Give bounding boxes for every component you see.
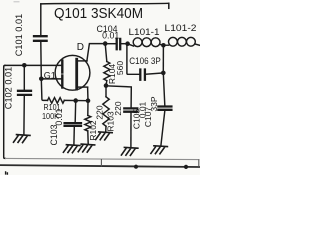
svg-text:220: 220 (113, 101, 123, 115)
node dot on bottom rule right (184, 165, 188, 169)
transistor Q101 channel bar (75, 59, 78, 89)
transistor Q101 body circle (55, 55, 90, 90)
transistor Q101 gate1 bar (61, 61, 63, 73)
wire top supply rail (41, 2, 169, 5)
svg-text:C101 0.01: C101 0.01 (14, 14, 24, 56)
svg-text:560: 560 (115, 61, 125, 75)
inductor L101-2 (163, 44, 168, 46)
capacitor C105 (124, 108, 137, 111)
svg-text:0.01: 0.01 (102, 31, 119, 41)
frame left border (4, 65, 5, 158)
ground R102 (78, 144, 95, 152)
wire R103 bottom lead (105, 126, 107, 132)
text bottom left cut glyph (6, 171, 8, 175)
node C106 C107 junction (161, 71, 166, 76)
wire R101 left lead from node G1 (41, 79, 47, 101)
capacitor C103 (65, 123, 81, 126)
wire C105 bottom lead (130, 113, 132, 147)
page rule divider (100, 159, 102, 167)
page rule right edge (198, 159, 200, 166)
svg-text:C106 3P: C106 3P (129, 56, 161, 66)
capacitor C104 (117, 39, 121, 49)
svg-text:C103: C103 (49, 124, 59, 145)
wire C102 top lead (23, 65, 25, 89)
node dot on bottom rule left (134, 165, 138, 169)
svg-text:0.01: 0.01 (54, 108, 64, 125)
wire C101 top lead (40, 4, 42, 35)
capacitor C102 (18, 91, 31, 95)
wire R104 top lead (105, 44, 107, 62)
wire drain lead up to node D (87, 44, 105, 61)
ground C102 (14, 135, 31, 143)
node C102 tap junction (22, 63, 27, 68)
resistor R102 (85, 115, 91, 131)
wire C106 right lead (146, 73, 163, 74)
wire C104 right lead (121, 43, 127, 45)
wire C106 left branch from C104 node (127, 44, 139, 75)
wire G1 gate lead (41, 78, 61, 80)
ground C103 (63, 145, 80, 153)
resistor R101 (48, 98, 65, 104)
wire C102 bottom lead (23, 96, 25, 134)
wire G2 input wire from left border (5, 64, 61, 66)
wire R102 top lead (87, 101, 89, 116)
ground C107 (151, 146, 168, 154)
wire C103 bottom lead (73, 127, 75, 145)
ground C105 (121, 147, 137, 155)
wire L101 node down lead (162, 45, 164, 73)
svg-text:Q101 3SK40M: Q101 3SK40M (54, 5, 143, 22)
wire source row (64, 99, 88, 101)
node drain junction (103, 41, 108, 46)
resistor R103 (103, 97, 109, 126)
transistor Q101 gate2 bar (61, 76, 63, 88)
svg-text:G1: G1 (44, 70, 56, 80)
node R104 R103 C105 junction (104, 83, 109, 88)
svg-text:220: 220 (94, 105, 104, 119)
wire source lead (87, 87, 89, 101)
svg-text:33P: 33P (149, 96, 159, 111)
wire R104 bottom lead (105, 81, 108, 86)
svg-text:L101-2: L101-2 (165, 23, 197, 33)
svg-text:R102: R102 (88, 120, 98, 141)
transistor Q101 drain tap (78, 60, 87, 62)
capacitor C106 (140, 70, 145, 80)
page rule line bottom (0, 165, 200, 167)
wire C107 top lead (163, 73, 165, 105)
inductor L101-1 (128, 44, 134, 46)
wire R102 bottom lead (87, 131, 89, 144)
svg-text:L101-1: L101-1 (129, 27, 160, 37)
wire C103 top lead (74, 101, 77, 122)
svg-text:C102 0.01: C102 0.01 (3, 67, 13, 109)
wire C105 top lead (106, 86, 131, 107)
transistor Q101 source tap (78, 86, 88, 88)
ground R103 (96, 132, 113, 140)
resistor R104 (104, 62, 110, 81)
node C103 tap junction (73, 98, 78, 103)
node L101 junction (161, 43, 166, 48)
capacitor C101 (34, 36, 47, 41)
node C104 output junction (125, 41, 130, 46)
wire C101 bottom lead to node G1 (40, 42, 43, 79)
wire R103 top lead (105, 86, 107, 97)
node source junction (86, 98, 91, 103)
node G1 junction (39, 77, 44, 82)
capacitor C107 (158, 107, 171, 110)
wire C104 left lead (105, 43, 115, 45)
wire rail end tick (168, 3, 170, 8)
wire C107 bottom lead (161, 111, 165, 146)
smudge top left (14, 1, 20, 3)
frame bottom border (5, 158, 200, 159)
svg-text:D: D (77, 42, 84, 53)
